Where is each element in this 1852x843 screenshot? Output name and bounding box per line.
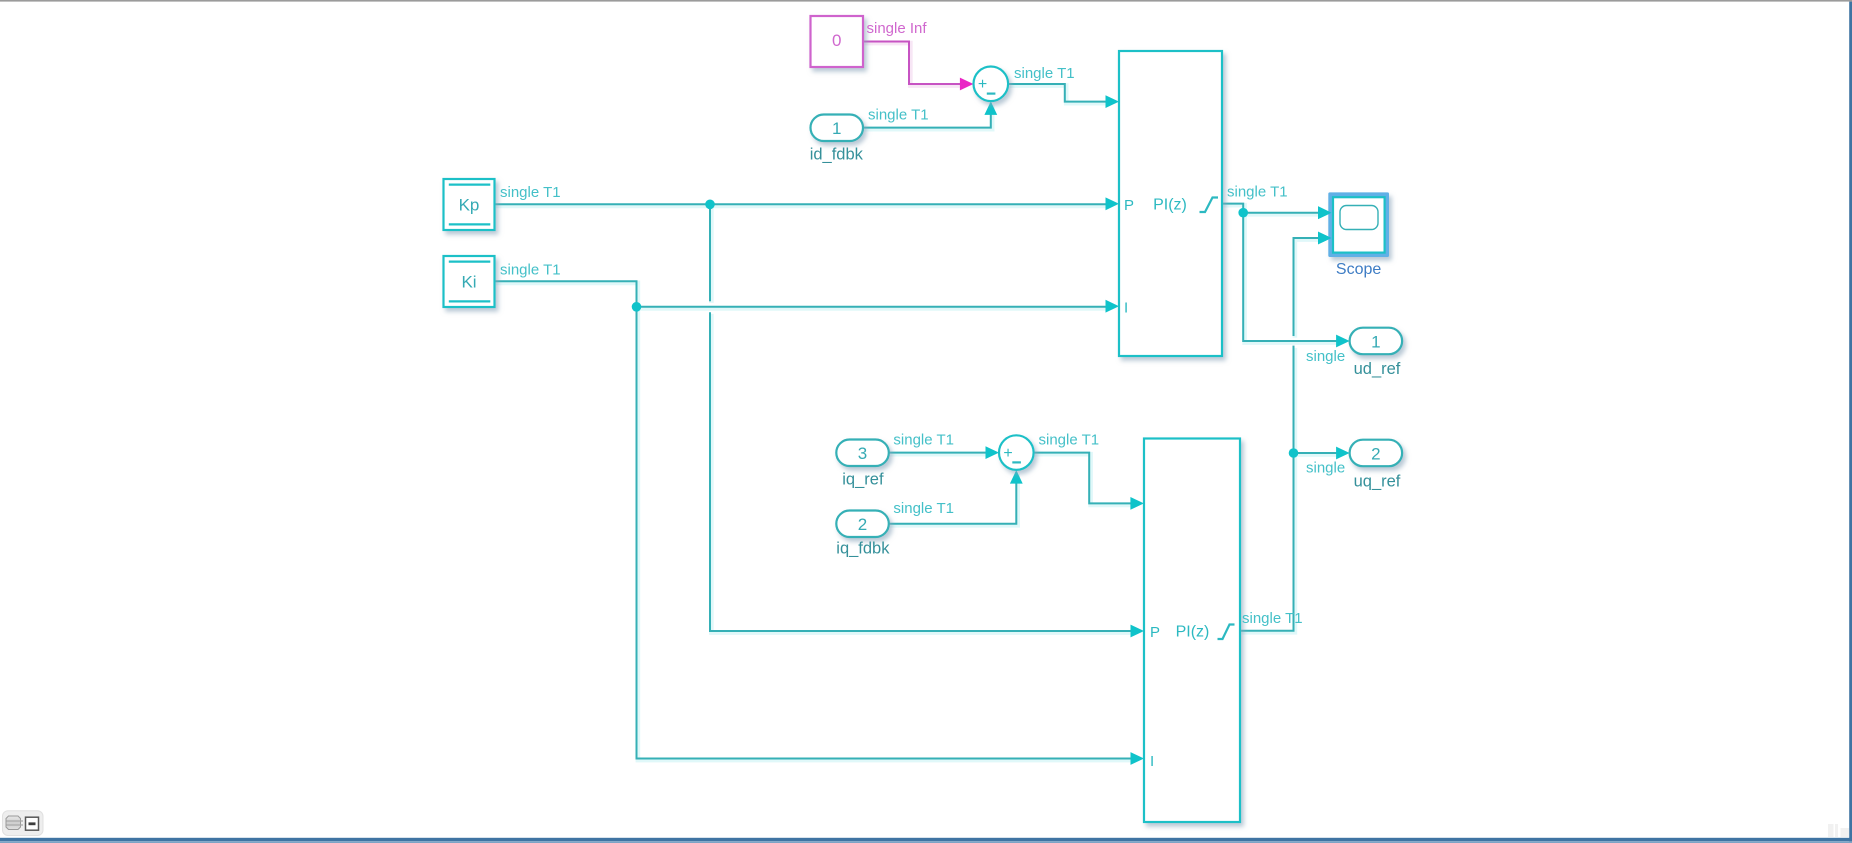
svg-text:single T1: single T1: [1039, 431, 1100, 448]
svg-text:2: 2: [1371, 444, 1380, 463]
svg-text:1: 1: [1371, 332, 1380, 351]
svg-text:Kp: Kp: [459, 195, 480, 214]
svg-text:Ki: Ki: [461, 272, 476, 291]
svg-text:Scope: Scope: [1336, 261, 1381, 278]
svg-text:id_fdbk: id_fdbk: [810, 146, 864, 164]
svg-text:single T1: single T1: [1014, 65, 1075, 82]
svg-text:P: P: [1150, 624, 1160, 641]
svg-text:single Inf: single Inf: [867, 20, 928, 37]
svg-text:0: 0: [832, 31, 841, 50]
svg-text:ud_ref: ud_ref: [1354, 360, 1401, 378]
svg-text:I: I: [1124, 299, 1128, 316]
svg-text:single T1: single T1: [893, 500, 954, 517]
svg-text:single T1: single T1: [500, 261, 561, 278]
svg-text:PI(z): PI(z): [1153, 197, 1187, 214]
svg-text:uq_ref: uq_ref: [1354, 472, 1401, 490]
svg-text:3: 3: [858, 444, 867, 463]
svg-text:single: single: [1306, 459, 1345, 476]
svg-text:single T1: single T1: [868, 107, 929, 124]
svg-text:single T1: single T1: [500, 184, 561, 201]
svg-text:PI(z): PI(z): [1176, 624, 1210, 641]
svg-text:iq_ref: iq_ref: [842, 471, 884, 489]
svg-text:+: +: [1003, 445, 1012, 462]
svg-text:I: I: [1150, 753, 1154, 770]
svg-text:single T1: single T1: [1242, 610, 1303, 627]
svg-text:single T1: single T1: [1227, 183, 1288, 200]
svg-text:P: P: [1124, 197, 1134, 214]
svg-text:single T1: single T1: [893, 431, 954, 448]
svg-text:iq_fdbk: iq_fdbk: [836, 539, 890, 557]
svg-text:2: 2: [858, 515, 867, 534]
svg-text:+: +: [978, 76, 987, 93]
svg-text:single: single: [1306, 348, 1345, 365]
svg-text:1: 1: [832, 119, 841, 138]
